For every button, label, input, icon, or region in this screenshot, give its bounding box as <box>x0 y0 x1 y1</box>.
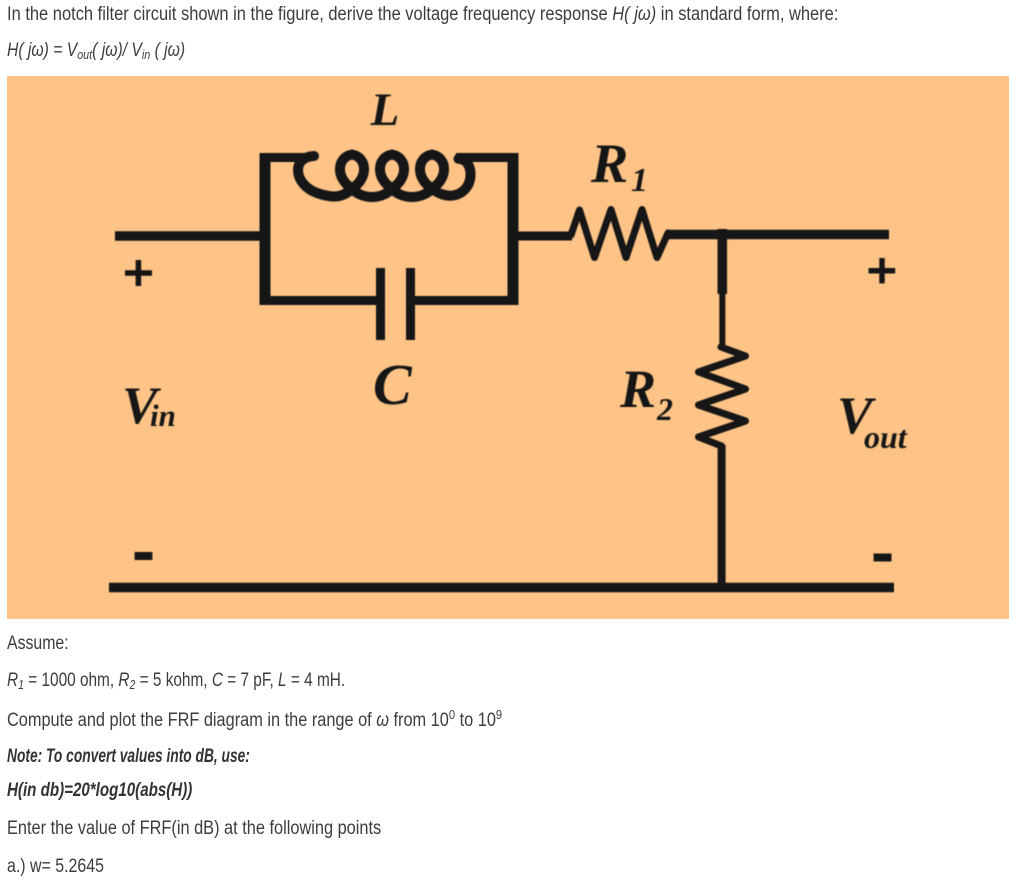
svg-text:2: 2 <box>656 391 673 427</box>
svg-text:L: L <box>370 84 400 136</box>
svg-text:R: R <box>590 133 628 195</box>
svg-text:C: C <box>373 352 413 417</box>
svg-text:out: out <box>864 419 908 455</box>
svg-text:in: in <box>150 398 176 433</box>
svg-text:R: R <box>619 359 656 419</box>
svg-text:1: 1 <box>631 162 648 199</box>
